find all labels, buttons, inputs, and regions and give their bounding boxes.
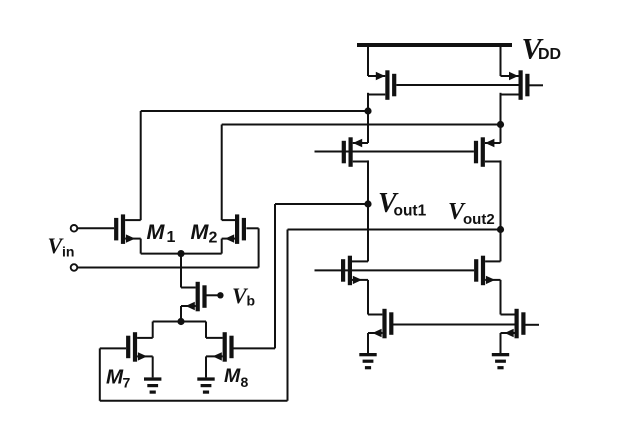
wire VDD drop to right PMOS source (500, 43, 502, 76)
wire node B to right cascode source (500, 125, 502, 144)
wire Vout2 feedback vertical (to bottom loop) (287, 230, 289, 401)
wire Vout1 feedback vertical (to M8 gate) (274, 204, 276, 348)
wire VDD drop to left PMOS source (367, 43, 369, 76)
transistor NMOS sink right (501, 309, 526, 339)
wire M2 source down (221, 239, 223, 254)
ground left sink (359, 353, 376, 369)
wire tail gate to Vb terminal (206, 294, 217, 296)
wire VDD supply rail (357, 43, 512, 47)
wire right sink source to ground (500, 333, 502, 353)
wire M7-M8 drain rail (153, 321, 206, 323)
svg-text:b: b (247, 292, 256, 308)
label Vout2 (448, 199, 495, 228)
wire node B to M2 drain (horizontal) (222, 124, 501, 126)
node common source junction (177, 250, 184, 257)
wire PMOS gate bias stub right (530, 84, 544, 86)
terminal input + (open circle) (71, 225, 78, 232)
wire M8 gate line (233, 347, 275, 349)
node A junction (left load / cascode) (364, 107, 371, 114)
wire bottom feedback loop horizontal (100, 400, 288, 402)
wire input - horizontal (77, 267, 258, 269)
terminal Vb (filled dot) (217, 292, 223, 298)
label M8 (224, 365, 249, 390)
wire NMOS cascode gates bias line (315, 269, 475, 271)
label VDD (522, 32, 562, 65)
wire right cascode drain to Vout2 (500, 160, 502, 229)
transistor PMOS cascode right (474, 137, 501, 167)
wire right NMOS cascode source down (500, 280, 502, 315)
transistor NMOS sink left (368, 309, 393, 339)
wire tail drain vertical (crosses input wire) (180, 254, 182, 288)
svg-text:out1: out1 (394, 202, 427, 219)
wire PMOS cascode gates bias line (315, 151, 474, 153)
wire M2 drain vertical (221, 125, 223, 221)
transistor M1 (114, 214, 141, 244)
label Vout1 (378, 188, 427, 220)
wire right PMOS drain to node B (500, 93, 502, 125)
wire common source rail (141, 253, 222, 255)
ground M8 (197, 377, 214, 393)
transistor PMOS current source left (368, 70, 396, 100)
wire M7 drain up (152, 322, 154, 338)
wire left NMOS cascode source down (367, 280, 369, 315)
wire Vout2 horizontal (crosses left column) (288, 229, 501, 231)
wire input + to M1 gate (77, 227, 114, 229)
wire M2 gate to riser (246, 227, 258, 229)
ground right sink (492, 353, 509, 369)
svg-text:M: M (147, 220, 166, 244)
svg-text:out2: out2 (463, 211, 495, 228)
transistor M2 (222, 214, 246, 244)
transistor NMOS cascode right (474, 256, 500, 286)
svg-text:7: 7 (123, 375, 131, 391)
node tail source / M7-M8 drain junction (177, 318, 184, 325)
ground M7 (144, 377, 161, 393)
transistor M7 (126, 332, 153, 362)
wire left PMOS drain to node A (367, 93, 369, 111)
label Vb (232, 283, 255, 309)
wire Vout1 horizontal to M8 gate feed (275, 203, 368, 205)
transistor PMOS cascode left (342, 137, 368, 167)
wire left sink source to ground (367, 333, 369, 353)
svg-text:M: M (224, 365, 241, 387)
wire M7 gate line (100, 347, 126, 349)
svg-text:8: 8 (241, 374, 249, 390)
wire input - riser to M2 gate (258, 228, 260, 267)
transistor tail current source (181, 282, 207, 312)
node B junction (right load / cascode) (497, 121, 504, 128)
label M1 (147, 220, 176, 246)
wire NMOS sink gates line (391, 324, 515, 326)
svg-text:2: 2 (209, 230, 218, 247)
wire M1 drain vertical (140, 111, 142, 220)
wire Vout2 to right NMOS cascode drain (500, 230, 502, 262)
svg-text:M: M (191, 220, 210, 244)
wire left cascode drain to Vout1 (367, 160, 369, 204)
transistor M8 (206, 332, 234, 362)
wire tail source down (180, 306, 182, 322)
wire M1 source down (140, 239, 142, 254)
wire NMOS sink gate stub right (526, 324, 540, 326)
terminal input - (open circle) (71, 264, 78, 271)
wire PMOS gates bias line (396, 84, 518, 86)
wire feedback loop vertical to M7 gate (99, 348, 101, 400)
svg-text:in: in (62, 244, 74, 260)
svg-text:DD: DD (538, 46, 561, 63)
wire M8 source to ground (205, 356, 207, 377)
transistor NMOS cascode left (341, 256, 368, 286)
svg-text:1: 1 (167, 229, 176, 246)
wire Vout1 to left NMOS cascode drain (367, 204, 369, 261)
wire node A to M1 drain (horizontal) (141, 110, 368, 112)
label M2 (191, 220, 218, 247)
label M7 (106, 365, 131, 390)
transistor PMOS current source right (501, 70, 530, 100)
wire node A to left cascode source (367, 111, 369, 143)
wire M7 source to ground (152, 356, 154, 377)
svg-text:M: M (106, 365, 124, 388)
node Vout2 junction (497, 226, 504, 233)
label Vin (48, 233, 75, 260)
wire M8 drain up (205, 322, 207, 338)
node Vout1 junction (364, 200, 371, 207)
